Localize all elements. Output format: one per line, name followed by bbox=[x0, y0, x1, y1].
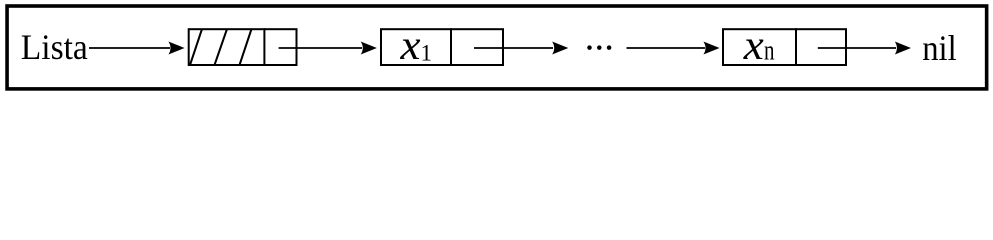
svg-text:nil: nil bbox=[922, 28, 957, 68]
border frame bbox=[7, 6, 987, 89]
divider N2 bbox=[450, 28, 452, 66]
node N3 (xn) bbox=[723, 29, 846, 65]
svg-text:n: n bbox=[764, 36, 775, 67]
wire: node 3 to nil bbox=[818, 47, 896, 49]
slash 3 bbox=[240, 29, 252, 65]
svg-text:Lista: Lista bbox=[21, 27, 88, 67]
node N2 (x1) bbox=[381, 29, 503, 65]
svg-text:x: x bbox=[399, 23, 420, 69]
divider N3 bbox=[795, 28, 797, 66]
divider N1 bbox=[263, 28, 265, 66]
svg-text:1: 1 bbox=[421, 40, 433, 65]
wire: node 2 to ellipsis bbox=[474, 47, 553, 49]
arrowhead into node 1 bbox=[168, 42, 184, 55]
arrowhead into nil bbox=[895, 42, 911, 55]
arrowhead into node 3 bbox=[703, 42, 719, 55]
svg-text:x: x bbox=[743, 23, 764, 69]
arrowhead into ellipsis bbox=[552, 42, 568, 55]
wire: Lista to node 1 bbox=[89, 47, 170, 49]
slash 1 bbox=[190, 29, 202, 65]
wire: node 1 to node 2 bbox=[279, 47, 362, 49]
wire: ellipsis to node 3 bbox=[627, 47, 706, 49]
slash 2 bbox=[215, 29, 228, 65]
arrowhead into node 2 bbox=[361, 42, 377, 55]
ellipsis dots bbox=[587, 45, 592, 50]
node N1 (head cell, slashed) bbox=[189, 29, 297, 65]
